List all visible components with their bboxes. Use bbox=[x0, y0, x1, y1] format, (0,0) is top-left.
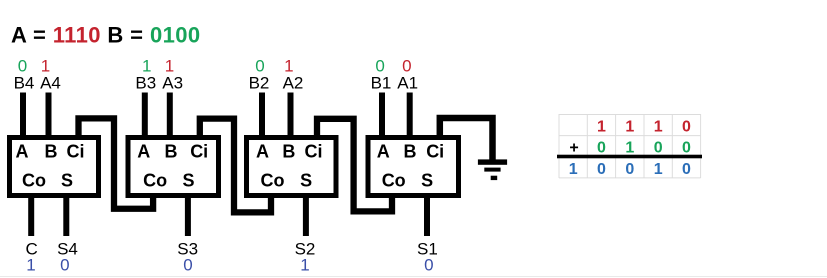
svg-text:B4: B4 bbox=[14, 73, 35, 92]
svg-text:1: 1 bbox=[300, 255, 309, 274]
svg-text:0: 0 bbox=[682, 140, 691, 157]
wire A4 input bbox=[46, 93, 52, 141]
svg-text:Ci: Ci bbox=[67, 142, 85, 162]
svg-text:S: S bbox=[300, 171, 312, 191]
svg-text:A: A bbox=[16, 142, 29, 162]
svg-text:A = 1110 B = 0100: A = 1110 B = 0100 bbox=[11, 23, 201, 48]
svg-text:B1: B1 bbox=[371, 73, 392, 92]
table row B: 0 1 0 0 bbox=[597, 140, 691, 157]
bottom edge line bbox=[0, 276, 827, 278]
svg-text:0: 0 bbox=[625, 161, 634, 178]
svg-text:1: 1 bbox=[654, 119, 663, 136]
wire A1 input bbox=[407, 93, 413, 141]
svg-text:1: 1 bbox=[625, 140, 634, 157]
full adder U2 (bit 3) bbox=[128, 138, 219, 196]
svg-text:Ci: Ci bbox=[190, 142, 208, 162]
wire B2 input bbox=[259, 93, 265, 141]
svg-text:B: B bbox=[404, 142, 417, 162]
svg-text:Co: Co bbox=[261, 171, 285, 191]
svg-text:A4: A4 bbox=[40, 73, 61, 92]
svg-text:0: 0 bbox=[183, 255, 192, 274]
table row A: 1 1 1 0 bbox=[597, 119, 691, 136]
svg-text:0: 0 bbox=[60, 255, 69, 274]
svg-text:0: 0 bbox=[424, 255, 433, 274]
svg-text:A: A bbox=[137, 142, 150, 162]
svg-text:0: 0 bbox=[682, 161, 691, 178]
wire A3 input bbox=[167, 93, 173, 141]
svg-text:Co: Co bbox=[143, 171, 167, 191]
svg-text:0: 0 bbox=[597, 161, 606, 178]
svg-text:A: A bbox=[377, 142, 390, 162]
svg-text:1: 1 bbox=[625, 119, 634, 136]
svg-text:1: 1 bbox=[597, 119, 606, 136]
wire B1 input bbox=[379, 93, 385, 141]
svg-text:1: 1 bbox=[654, 161, 663, 178]
svg-text:S: S bbox=[182, 171, 194, 191]
svg-text:S: S bbox=[61, 171, 73, 191]
svg-text:Co: Co bbox=[22, 171, 46, 191]
wire A2 input bbox=[288, 93, 294, 141]
svg-text:A: A bbox=[256, 142, 269, 162]
svg-text:Ci: Ci bbox=[305, 142, 323, 162]
svg-text:S: S bbox=[421, 171, 433, 191]
svg-text:0: 0 bbox=[597, 140, 606, 157]
svg-text:Ci: Ci bbox=[426, 142, 444, 162]
wire carry U2.Co to U1.Ci bbox=[79, 118, 154, 208]
addition table grid bbox=[559, 114, 701, 178]
wire B3 input bbox=[142, 93, 148, 141]
svg-text:1: 1 bbox=[26, 255, 35, 274]
wire S2 output bbox=[303, 195, 309, 236]
wire B4 input bbox=[20, 93, 26, 141]
svg-text:A1: A1 bbox=[397, 73, 418, 92]
table sum row: 1 0 0 1 0 bbox=[569, 161, 691, 178]
svg-text:+: + bbox=[569, 140, 578, 157]
svg-text:A3: A3 bbox=[162, 73, 183, 92]
wire carry U4.Co to U3.Ci bbox=[317, 119, 392, 212]
svg-text:0: 0 bbox=[654, 140, 663, 157]
svg-text:B2: B2 bbox=[249, 73, 270, 92]
wire S4 output bbox=[63, 195, 69, 236]
full adder U3 (bit 2) bbox=[247, 138, 337, 196]
wire U4.Ci to ground bbox=[440, 118, 493, 161]
svg-text:1: 1 bbox=[569, 161, 578, 178]
svg-text:B3: B3 bbox=[135, 73, 156, 92]
svg-text:Co: Co bbox=[382, 171, 406, 191]
svg-text:B: B bbox=[282, 142, 295, 162]
full adder U4 (bit 1) bbox=[368, 138, 459, 196]
svg-text:B: B bbox=[45, 142, 58, 162]
svg-text:0: 0 bbox=[682, 119, 691, 136]
wire carry U3.Co to U2.Ci bbox=[200, 119, 271, 213]
svg-text:B: B bbox=[165, 142, 178, 162]
wire S1 output bbox=[424, 195, 430, 236]
svg-text:A2: A2 bbox=[283, 73, 304, 92]
full adder U1 (bit 4) bbox=[10, 138, 99, 196]
ground bbox=[478, 159, 507, 180]
wire C output bbox=[28, 195, 34, 236]
table sum line bbox=[557, 155, 702, 159]
wire S3 output bbox=[185, 195, 191, 236]
